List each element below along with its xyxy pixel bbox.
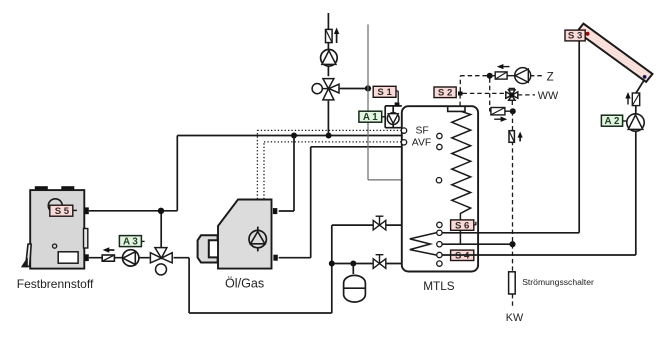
check valve solar [632, 93, 639, 106]
port circle SF [401, 128, 406, 133]
check valve FB return [102, 255, 114, 261]
wire dashed KW main [512, 111, 514, 308]
check valve Z [495, 72, 507, 79]
node J3 [326, 133, 332, 139]
node J6 [350, 261, 356, 267]
port circle c5 [437, 261, 442, 266]
wire riser FB to main line [176, 136, 178, 211]
wire boiler FB flow top [89, 210, 178, 212]
svg-text:Strömungsschalter: Strömungsschalter [522, 277, 594, 287]
sensor label S4 [451, 250, 474, 261]
actor label A1 [359, 111, 386, 123]
gate valve on y=263.5 line [373, 255, 386, 269]
svg-text:SF: SF [416, 126, 429, 137]
arrow up left of solar valve [625, 92, 630, 105]
svg-text:AVF: AVF [412, 138, 431, 149]
port flange FB bottom [84, 254, 88, 261]
wire FB return bottom chain [89, 225, 437, 313]
check valve KW line [509, 131, 514, 143]
port circle c3 [437, 242, 442, 247]
wire OlGas top port [279, 136, 294, 212]
pump Z [515, 68, 531, 84]
mixing valve U-top (3-way with actuator) [312, 79, 339, 100]
arrow right below valve [494, 117, 507, 122]
arrow left above Z valve [497, 64, 510, 69]
port flange FB top [84, 207, 88, 214]
arrow up beside safety valve [334, 28, 339, 44]
sensor label S5 [50, 205, 77, 217]
svg-text:A 1: A 1 [363, 112, 378, 123]
boiler OlGas [218, 200, 272, 269]
valve WW mixing (4-way) [506, 88, 518, 100]
wire collector to check valve [636, 80, 645, 94]
wire S1 drop line (gray) [368, 24, 436, 180]
svg-text:S 4: S 4 [455, 251, 470, 262]
wire dashed S2 to WW valve [463, 92, 506, 94]
port flange OG top [273, 208, 277, 214]
port circle c4 [437, 252, 442, 257]
svg-text:S 3: S 3 [568, 31, 582, 42]
wire expansion stub [352, 264, 354, 275]
svg-text:S 2: S 2 [438, 88, 452, 99]
coil DHW (vertical zigzag) [452, 111, 471, 244]
port flange OG bottom [273, 255, 277, 261]
wire S1 hook [396, 91, 398, 102]
sensor label S1 [373, 86, 396, 98]
svg-text:MTLS: MTLS [423, 279, 455, 293]
wire riser top-assembly [327, 13, 329, 136]
gate valve on y=225 line [373, 216, 386, 230]
port circle AVF [401, 140, 406, 145]
wire valve to pump A2 [635, 106, 637, 114]
node J4 [365, 85, 371, 91]
pump A2 [627, 114, 644, 131]
check valve KW top [490, 108, 513, 115]
wire dashed Z out [530, 75, 544, 77]
collector S3 [577, 24, 653, 82]
node Z junction [487, 73, 493, 79]
sensor label S2 [434, 87, 456, 99]
wire top valve out to node [339, 88, 368, 90]
label A3 [119, 236, 144, 248]
arrow up beside KW check valve [518, 132, 523, 142]
port circle s1line [436, 178, 441, 183]
node square S1 attach [395, 102, 400, 106]
flow switch [509, 272, 516, 294]
port circle flow-og [437, 144, 442, 149]
svg-text:S 6: S 6 [455, 220, 469, 231]
wire dashed WW out [518, 94, 535, 96]
port circle c1 [437, 222, 442, 227]
svg-text:WW: WW [538, 90, 559, 102]
node KW top [510, 108, 516, 114]
svg-text:Öl/Gas: Öl/Gas [225, 276, 264, 290]
safety valve top [326, 29, 333, 42]
port circle c2 [437, 230, 442, 235]
wire branch to mixing valve A3 [160, 211, 162, 248]
wire dashed WW riser from tank flange [460, 76, 487, 106]
burner OlGas left [198, 235, 218, 262]
wire main flow line [177, 135, 436, 137]
port circle flow-main [437, 133, 442, 138]
pump A1 bracket [385, 106, 402, 128]
sensor label S3 [565, 30, 585, 42]
node J2 [291, 133, 297, 139]
expansion vessel [344, 275, 366, 302]
svg-text:S 1: S 1 [377, 87, 392, 98]
svg-text:KW: KW [506, 312, 524, 324]
svg-text:A 3: A 3 [123, 236, 138, 247]
svg-text:Festbrennstoff: Festbrennstoff [17, 277, 94, 291]
wire dashed Z down branch [489, 78, 491, 111]
pump A1 [387, 113, 399, 125]
flue lever FB left [22, 244, 32, 267]
wire bottom bus to tank lower port [332, 263, 437, 265]
pump top riser [321, 50, 338, 67]
sensor label S6 [451, 220, 476, 231]
svg-text:Z: Z [547, 70, 554, 83]
wire solar supply S4 line [442, 131, 636, 255]
wire solar return to collector [442, 38, 579, 233]
mixing valve A3 (3-way, actuator below) [150, 248, 172, 275]
boiler Festbrennstoff [30, 186, 88, 268]
arrow left above check valve [103, 247, 115, 253]
node KW coil junction [509, 241, 515, 247]
wire Z solid segment [490, 75, 515, 77]
coil solar (bottom zigzag) [410, 233, 437, 256]
node J1 [158, 208, 164, 214]
svg-text:S 5: S 5 [55, 206, 70, 217]
node square S2 attach [458, 92, 463, 96]
actor label A2 [601, 115, 626, 127]
wire OlGas bottom port [279, 147, 437, 258]
pump A3 [123, 250, 139, 266]
tank MTLS [402, 106, 478, 271]
wire dotted AVF sensor line [264, 142, 401, 199]
node J5 [329, 261, 335, 267]
wire dotted SF sensor line [257, 130, 401, 199]
tank top flange [448, 106, 465, 111]
wire coil to KW [442, 243, 513, 245]
svg-text:A 2: A 2 [605, 116, 620, 127]
wire dashed WW valve bottom [511, 101, 513, 108]
